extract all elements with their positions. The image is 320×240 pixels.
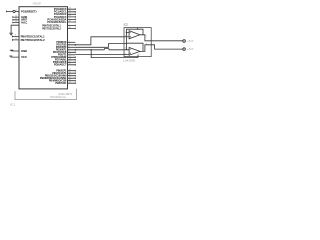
op-amp A power pin 8 (137, 28, 139, 30)
pin GND power bar (10, 49, 19, 52)
svg-text:22: 22 (69, 63, 71, 65)
svg-text:19: 19 (69, 82, 71, 84)
svg-text:20: 20 (15, 21, 17, 23)
svg-text:IC1: IC1 (10, 102, 16, 106)
svg-text:ATMEGA328P: ATMEGA328P (33, 1, 41, 5)
junction op-amp B input (126, 49, 127, 50)
op-amp U1:B triangle (129, 48, 140, 56)
pin PD3/INT1 (68, 49, 76, 51)
svg-text:PC6(RESET): PC6(RESET) (21, 9, 37, 13)
microcontroller IC1 body (19, 7, 68, 89)
wire PD2 to op-amp A inverting input (75, 44, 124, 48)
pin PD4/T0/XCK (68, 52, 76, 54)
svg-text:1: 1 (146, 36, 147, 38)
pin PB5/SCK (68, 82, 76, 84)
pin PC4/ADC4/SDA (68, 19, 76, 21)
svg-text:+5.0: +5.0 (187, 40, 194, 43)
svg-text:VCC: VCC (21, 55, 27, 59)
svg-text:PC5/ADC5/SCL: PC5/ADC5/SCL (47, 20, 66, 24)
svg-text:PB6/TOSC1/XTAL1: PB6/TOSC1/XTAL1 (21, 34, 46, 38)
pin AGND stub (13, 16, 19, 18)
svg-text:PB5/SCK: PB5/SCK (55, 81, 66, 85)
svg-text:5: 5 (125, 53, 126, 55)
wire op-amp A output to probe 1 (151, 40, 182, 42)
pin PB6/TOSC1/XTAL1 right (68, 25, 76, 27)
op-amp B feedback loop (127, 43, 144, 51)
op-amp A inverting input riser from pin 2 (124, 33, 129, 44)
pin PB4/MISO (68, 80, 76, 82)
pin PC0/ADC0 (68, 8, 76, 10)
svg-text:PB7/TOSC2/XTAL2: PB7/TOSC2/XTAL2 (42, 26, 61, 30)
junction on PD3 net (91, 49, 92, 50)
pin PB7/TOSC2/XTAL2 right (68, 28, 76, 30)
wire PD5 to op-amp B non-inverting input (75, 54, 124, 56)
wire op-amp B output to probe 2 (151, 45, 182, 49)
ground (9, 33, 13, 35)
wire ground branch to op-amp pin 4 (91, 50, 138, 58)
pin PC2/ADC2 (68, 14, 76, 16)
svg-text:PB7/TOSC2/XTAL2: PB7/TOSC2/XTAL2 (21, 38, 46, 42)
pin PC5/ADC5/SCL (68, 21, 76, 23)
op-amp A input polarity marks (130, 33, 131, 38)
svg-text:6: 6 (125, 48, 126, 50)
pin PC3/ADC3 (68, 16, 76, 18)
pin PD2/INT0 (68, 46, 76, 48)
pin PB0/ICP1 (68, 70, 76, 72)
svg-text:2: 2 (125, 32, 126, 34)
op-amp B power pin 4 (137, 55, 139, 57)
probe terminal 2 (183, 48, 186, 51)
svg-text:4: 4 (138, 53, 139, 55)
pin PB3/MOSI/OC2A (68, 77, 76, 79)
op-amp B inverting input riser from feedback (124, 43, 129, 50)
svg-text:9: 9 (15, 35, 16, 37)
svg-text:22: 22 (15, 15, 17, 17)
op-amp A output to pin 1 (140, 35, 151, 41)
pin VCC power bar (9, 56, 19, 57)
op-amp B input polarity marks (130, 49, 131, 54)
svg-text:PROGRAM=main: PROGRAM=main (50, 96, 67, 99)
wire PD1 to op-amp A non-inverting input (75, 37, 124, 45)
svg-text:10: 10 (69, 27, 71, 29)
op-amp B non-inverting input wire from pin 5 (124, 54, 129, 56)
svg-text:8: 8 (138, 29, 139, 31)
op-amp IC2 body (124, 28, 151, 57)
pin PD5/T1 (68, 54, 76, 56)
junction op-amp A input (126, 32, 127, 33)
svg-text:1: 1 (16, 10, 17, 12)
pin 1 PC6/RESET wire with bubble (6, 11, 12, 13)
pin ADC7 (68, 64, 76, 66)
pin AREF stub (13, 19, 19, 21)
pin PD6/AIN0 (68, 57, 76, 59)
pin PB1/OC1A (68, 72, 76, 74)
svg-text:7: 7 (146, 43, 147, 45)
svg-text:GND: GND (21, 49, 27, 53)
pin PB7/TOSC2/XTAL2 stub (12, 39, 19, 41)
pin PD7/AIN1 (68, 59, 76, 61)
pin AVCC stub (13, 22, 19, 24)
pin PB2/SS/OC1B (68, 75, 76, 77)
pin PD1/TXD (68, 44, 76, 46)
op-amp B output to pin 7 (140, 45, 151, 52)
svg-text:LM358: LM358 (123, 58, 136, 62)
probe terminal 1 (183, 40, 186, 43)
wire PD3 to op-amp B inverting input with hop (75, 49, 124, 50)
wire GND pin elbow (11, 25, 19, 33)
pin PD0/RXD (68, 41, 76, 43)
op-amp U1:A triangle (129, 31, 140, 39)
pin PB6/TOSC1/XTAL1 stub (12, 36, 19, 38)
text block frame below IC1 (15, 89, 77, 100)
op-amp A non-inverting input pin 3 (124, 36, 129, 38)
svg-text:PD5/ADC7: PD5/ADC7 (54, 63, 67, 67)
svg-text:9: 9 (69, 24, 70, 26)
svg-text:10: 10 (15, 38, 17, 40)
pin ADC6 (68, 62, 76, 64)
svg-text:28: 28 (69, 20, 71, 22)
op-amp A feedback loop (127, 29, 144, 35)
pin PC1/ADC1 (68, 11, 76, 13)
svg-text:AVCC: AVCC (21, 20, 27, 24)
svg-text:+5.0: +5.0 (187, 48, 194, 51)
svg-text:21: 21 (15, 18, 17, 20)
svg-text:3: 3 (125, 35, 126, 37)
svg-text:IC2: IC2 (124, 23, 129, 27)
